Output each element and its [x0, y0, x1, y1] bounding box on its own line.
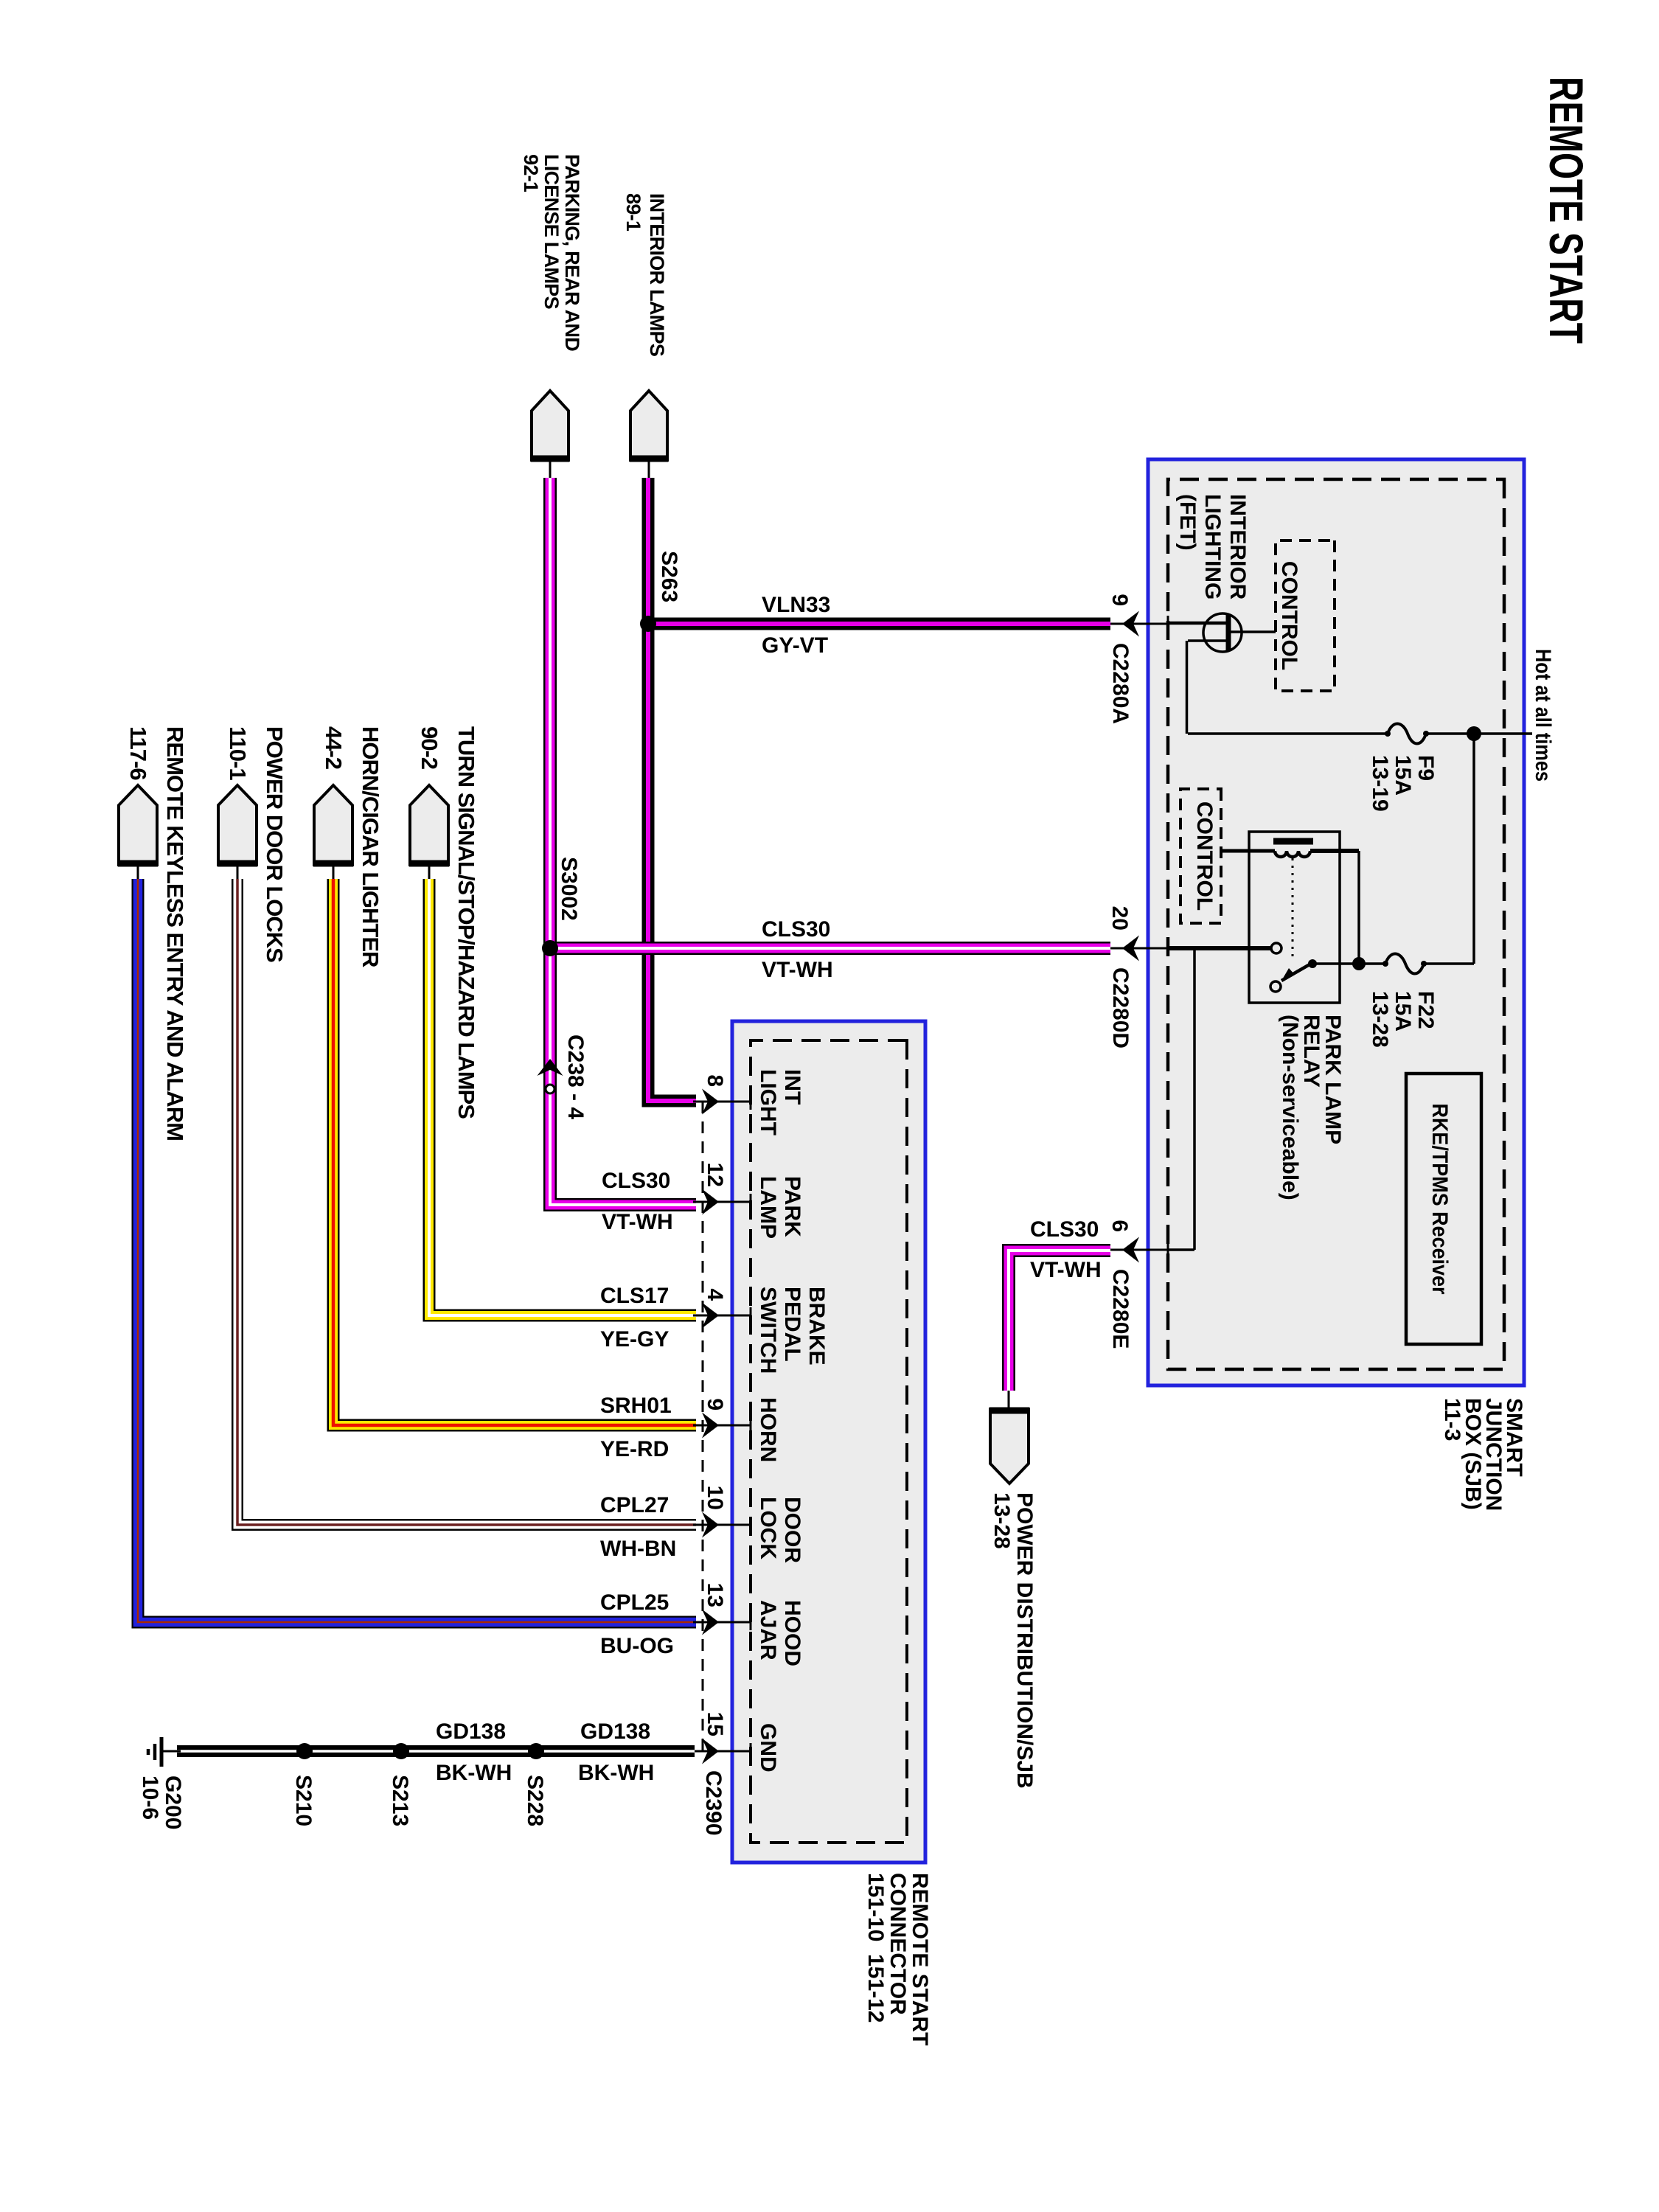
svg-text:REMOTE KEYLESS ENTRY AND ALARM: REMOTE KEYLESS ENTRY AND ALARM: [162, 726, 188, 1141]
wire SRH01 YE-RD bus and riser: [333, 879, 696, 1425]
svg-text:LIGHTING: LIGHTING: [1200, 494, 1225, 599]
svg-text:BK-WH: BK-WH: [578, 1761, 654, 1785]
svg-text:CLS17: CLS17: [600, 1284, 669, 1308]
svg-text:GD138: GD138: [436, 1719, 506, 1744]
svg-text:INTERIOR: INTERIOR: [1225, 494, 1250, 600]
svg-text:117-6: 117-6: [125, 726, 151, 780]
svg-text:G200: G200: [161, 1775, 185, 1829]
connector pentagon HORN/CIGAR LIGHTER: [314, 785, 352, 865]
pin 15 GND C2390: [693, 1750, 751, 1753]
wire stub pentagon 90-2: [428, 863, 431, 880]
svg-text:SRH01: SRH01: [600, 1394, 672, 1418]
pin 8 INT LIGHT: [693, 1101, 751, 1103]
svg-text:(Non-serviceable): (Non-serviceable): [1278, 1015, 1302, 1200]
svg-text:Hot at all times: Hot at all times: [1531, 649, 1555, 782]
svg-text:PARK: PARK: [780, 1176, 804, 1237]
svg-text:RKE/TPMS Receiver: RKE/TPMS Receiver: [1427, 1104, 1452, 1295]
fuse F22 15A: [1385, 954, 1424, 974]
svg-text:(FET): (FET): [1175, 494, 1200, 551]
svg-text:BK-WH: BK-WH: [436, 1761, 512, 1785]
svg-text:POWER DOOR LOCKS: POWER DOOR LOCKS: [262, 726, 288, 962]
junction relay coil feed: [1352, 957, 1366, 970]
relay box park lamp relay: [1249, 832, 1340, 1003]
svg-text:HOOD: HOOD: [780, 1600, 804, 1666]
svg-text:SWITCH: SWITCH: [756, 1287, 780, 1374]
svg-text:S213: S213: [388, 1775, 412, 1826]
svg-text:4: 4: [703, 1288, 727, 1301]
svg-text:WH-BN: WH-BN: [600, 1537, 676, 1561]
svg-text:C2390: C2390: [701, 1770, 726, 1835]
connector pentagon POWER DOOR LOCKS: [218, 785, 257, 865]
svg-text:S210: S210: [291, 1775, 316, 1826]
svg-text:CLS30: CLS30: [602, 1169, 670, 1193]
svg-text:HORN/CIGAR LIGHTER: HORN/CIGAR LIGHTER: [358, 726, 383, 967]
wire F9 to FET source corner: [1188, 732, 1388, 735]
ground G200: [161, 1750, 181, 1753]
relay K1 coil: [1273, 838, 1313, 845]
svg-text:S228: S228: [523, 1775, 547, 1826]
svg-text:BU-OG: BU-OG: [600, 1634, 674, 1658]
pin 12 PARK LAMP: [693, 1201, 751, 1203]
connector C2390 dashed pin line: [702, 1102, 704, 1751]
svg-text:C2280A: C2280A: [1108, 643, 1133, 724]
connector pentagon INTERIOR LAMPS: [630, 391, 667, 460]
wire stub pentagon 117-6: [137, 863, 139, 880]
wire F22 to relay contact: [1311, 962, 1385, 965]
svg-text:LICENSE LAMPS: LICENSE LAMPS: [540, 154, 563, 309]
connector pentagon POWER DISTRIBUTION/SJB: [990, 1409, 1029, 1484]
svg-text:92-1: 92-1: [520, 154, 542, 192]
svg-text:INT: INT: [780, 1069, 804, 1105]
svg-text:VT-WH: VT-WH: [602, 1210, 673, 1234]
svg-text:89-1: 89-1: [622, 193, 644, 232]
relay dotted actuator link: [1292, 858, 1294, 957]
connector pentagon PARKING REAR AND LICENSE LAMPS: [532, 391, 568, 460]
svg-text:LIGHT: LIGHT: [756, 1069, 780, 1135]
svg-text:C238 - 4: C238 - 4: [563, 1034, 588, 1119]
svg-text:YE-RD: YE-RD: [600, 1437, 669, 1461]
pin 10 DOOR LOCK: [693, 1524, 751, 1526]
svg-text:CONNECTOR: CONNECTOR: [886, 1873, 910, 2015]
node S3002: [542, 940, 558, 956]
svg-text:10-6: 10-6: [138, 1775, 162, 1820]
svg-text:F22: F22: [1413, 991, 1438, 1029]
relay switch pivot circle: [1270, 981, 1281, 992]
wire feed branch to F22: [1472, 734, 1475, 964]
svg-text:13-19: 13-19: [1368, 755, 1392, 812]
control box 1 dashed: [1276, 540, 1335, 691]
connector pentagon TURN SIGNAL/STOP/HAZARD LAMPS: [410, 785, 448, 865]
svg-text:151-10 151-12: 151-10 151-12: [863, 1873, 888, 2023]
svg-text:REMOTE START: REMOTE START: [908, 1873, 932, 2045]
svg-text:CLS30: CLS30: [1030, 1217, 1099, 1242]
svg-text:6: 6: [1107, 1220, 1132, 1232]
svg-text:9: 9: [1107, 594, 1132, 606]
svg-text:CLS30: CLS30: [762, 917, 830, 942]
svg-text:8: 8: [703, 1074, 727, 1087]
svg-text:S3002: S3002: [557, 857, 581, 921]
svg-text:VT-WH: VT-WH: [762, 958, 833, 982]
wire CLS30 VT-WH bus and riser to pin12: [550, 478, 696, 1205]
relay common circle: [1271, 943, 1281, 953]
svg-text:90-2: 90-2: [417, 726, 442, 769]
svg-text:GD138: GD138: [580, 1719, 650, 1744]
svg-text:S263: S263: [657, 551, 681, 602]
svg-text:13-28: 13-28: [990, 1492, 1014, 1549]
svg-text:PEDAL: PEDAL: [780, 1287, 804, 1362]
wire stub to power distribution pentagon: [1008, 1391, 1010, 1411]
fuse F9 15A: [1388, 724, 1426, 744]
svg-text:PARKING, REAR AND: PARKING, REAR AND: [561, 154, 583, 351]
wire VLN33 GY-VT bus and riser to pin8: [648, 478, 696, 1101]
node S213: [393, 1743, 409, 1759]
svg-text:YE-GY: YE-GY: [600, 1327, 669, 1352]
relay switch arm: [1281, 964, 1311, 981]
SJB pin 6 C2280E: [1110, 1249, 1168, 1251]
svg-text:44-2: 44-2: [321, 726, 347, 769]
remote start connector box outline: [732, 1021, 925, 1863]
wire CPL27 WH-BN bus and riser: [237, 879, 696, 1525]
node S263: [640, 616, 656, 632]
wire stub pentagon 89-1: [648, 459, 650, 479]
connector pentagon REMOTE KEYLESS ENTRY AND ALARM: [119, 785, 157, 865]
svg-text:TURN SIGNAL/STOP/HAZARD LAMPS: TURN SIGNAL/STOP/HAZARD LAMPS: [453, 726, 479, 1119]
svg-text:10: 10: [703, 1486, 727, 1510]
wire stub pentagon 110-1: [237, 863, 239, 880]
svg-text:LAMP: LAMP: [756, 1176, 780, 1239]
node S210: [296, 1743, 313, 1759]
relay switch contact: [1308, 959, 1317, 968]
transistor Q1 interior lighting FET: [1203, 613, 1242, 652]
svg-text:C2280E: C2280E: [1108, 1269, 1133, 1349]
wire FET gate to control: [1231, 630, 1276, 633]
wire hot feed vertical: [1473, 732, 1532, 735]
svg-text:POWER DISTRIBUTION/SJB: POWER DISTRIBUTION/SJB: [1012, 1492, 1037, 1789]
svg-text:VLN33: VLN33: [762, 593, 830, 617]
pin 4 BRAKE PEDAL SWITCH: [693, 1315, 751, 1317]
wire coil return: [1357, 851, 1360, 964]
wire CLS17 YE-GY bus and riser: [429, 879, 696, 1315]
svg-text:15A: 15A: [1391, 991, 1415, 1032]
wire CPL25 BU-OG bus and riser: [138, 879, 696, 1622]
junction hot feed split: [1467, 726, 1481, 741]
svg-text:F9: F9: [1413, 755, 1438, 781]
wire CLS30 VT-WH pin6 to power distribution: [1009, 1251, 1110, 1391]
pin 9 HORN: [693, 1425, 751, 1427]
SJB pin 9 C2280A: [1110, 623, 1168, 625]
svg-text:CONTROL: CONTROL: [1192, 801, 1217, 911]
svg-text:CONTROL: CONTROL: [1277, 561, 1301, 670]
svg-text:GY-VT: GY-VT: [762, 633, 828, 658]
inline connector C238-4 arrow: [538, 1059, 563, 1076]
svg-text:AJAR: AJAR: [756, 1600, 780, 1660]
svg-text:15A: 15A: [1391, 755, 1415, 796]
remote start connector dashed boundary: [751, 1040, 907, 1843]
svg-text:DOOR: DOOR: [780, 1497, 804, 1563]
svg-text:GND: GND: [756, 1723, 780, 1773]
wire stub pentagon 44-2: [333, 863, 335, 880]
SJB pin 20 C2280D: [1110, 947, 1168, 950]
svg-text:9: 9: [703, 1398, 727, 1411]
svg-text:12: 12: [703, 1163, 727, 1187]
svg-text:INTERIOR LAMPS: INTERIOR LAMPS: [646, 193, 668, 356]
svg-text:REMOTE START: REMOTE START: [1540, 77, 1593, 344]
svg-text:13: 13: [703, 1583, 727, 1607]
svg-text:LOCK: LOCK: [756, 1497, 780, 1559]
svg-text:VT-WH: VT-WH: [1030, 1258, 1102, 1282]
wire feed to F9: [1426, 732, 1474, 735]
wire pin20 riser inside SJB: [1168, 946, 1271, 950]
pin 13 HOOD AJAR: [693, 1621, 751, 1624]
svg-text:11-3: 11-3: [1440, 1398, 1464, 1441]
control box 2 dashed: [1180, 789, 1221, 923]
smart junction box SJB outline: [1148, 459, 1524, 1385]
svg-text:CPL25: CPL25: [600, 1590, 669, 1615]
svg-text:HORN: HORN: [756, 1397, 780, 1462]
SJB inner dashed boundary: [1168, 479, 1504, 1369]
node S228: [528, 1743, 544, 1759]
svg-text:15: 15: [703, 1712, 727, 1736]
wire pin6 internal: [1193, 948, 1196, 1250]
wire GD138 BK-WH ground line: [177, 1745, 695, 1757]
wire stub pentagon 92-1: [549, 459, 552, 479]
svg-text:BRAKE: BRAKE: [804, 1287, 829, 1366]
svg-text:13-28: 13-28: [1368, 991, 1392, 1048]
svg-text:CPL27: CPL27: [600, 1493, 669, 1517]
svg-text:C2280D: C2280D: [1108, 967, 1133, 1048]
wire coil to control 2: [1221, 849, 1275, 853]
svg-text:20: 20: [1107, 906, 1132, 931]
wire branch down to F22: [1424, 962, 1474, 965]
svg-text:110-1: 110-1: [225, 726, 251, 780]
RKE TPMS receiver box: [1406, 1074, 1481, 1344]
